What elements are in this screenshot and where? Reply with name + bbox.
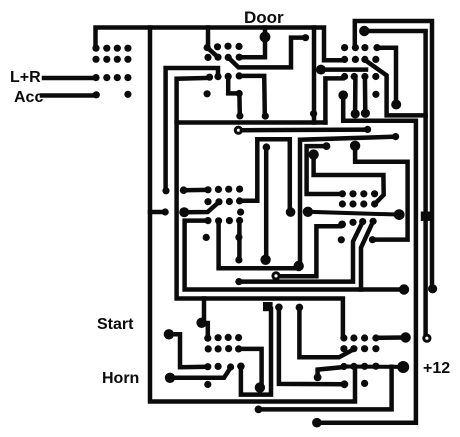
svg-text:Door: Door <box>244 8 284 27</box>
svg-text:L+R: L+R <box>10 69 41 86</box>
svg-text:Acc: Acc <box>14 89 43 106</box>
svg-text:Horn: Horn <box>102 370 139 387</box>
svg-text:+12: +12 <box>423 360 450 377</box>
svg-text:Start: Start <box>97 316 134 333</box>
